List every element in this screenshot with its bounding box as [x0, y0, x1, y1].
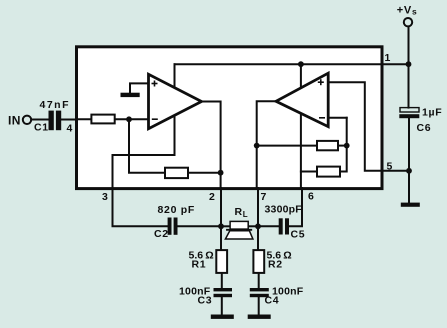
wire C5 to pin 6: [289, 188, 302, 226]
svg-text:R1: R1: [192, 259, 207, 271]
svg-text:C6: C6: [417, 122, 432, 134]
wire node A down: [129, 119, 165, 172]
junction node: feedback/output A: [218, 170, 224, 176]
resistor R2 5.6ohm: [253, 250, 264, 273]
wire internal net pin3 riser: [113, 64, 175, 188]
resistor R1 5.6ohm: [216, 250, 227, 273]
wire +Vs rail lower: [408, 118, 410, 202]
wire pin 3 external: [113, 188, 168, 226]
wire top internal rail to pin 1: [175, 63, 409, 65]
junction node: pin 5 on rail: [406, 168, 412, 174]
wire plus input op-amp B to pin 5: [328, 82, 382, 171]
wire pin7 node to C5: [258, 225, 279, 227]
IC box U1: [77, 47, 383, 189]
junction node: pin 1 on rail: [406, 61, 412, 67]
ground bar C4: [248, 315, 271, 319]
junction node: pin2/C2/speaker: [218, 223, 224, 229]
wire R1 to C3: [221, 273, 223, 288]
svg-text:C4: C4: [265, 295, 280, 307]
wire op-amp A output to pin 2: [202, 102, 221, 189]
plus mark op-amp A: [152, 83, 158, 85]
svg-text:5: 5: [387, 161, 394, 173]
junction node: top rail / pin6 riser: [298, 61, 304, 67]
minus mark op-amp A: [152, 118, 158, 120]
wire C1 to pin 4: [61, 119, 77, 121]
op-amp U1a triangle: [149, 74, 202, 128]
wire minus input op-amp B: [328, 117, 347, 119]
svg-text:47nF: 47nF: [40, 99, 71, 111]
junction node: minus input A: [126, 116, 132, 122]
svg-text:IN: IN: [8, 114, 21, 128]
plus mark op-amp B: [318, 81, 324, 83]
resistor Rin B (internal): [317, 167, 340, 177]
wire +Vs rail upper: [408, 27, 410, 108]
capacitor C3 plates: [214, 288, 233, 291]
wire feedback resistor B left: [257, 145, 317, 147]
svg-text:1µF: 1µF: [422, 107, 442, 119]
capacitor C5 plates: [279, 218, 283, 234]
svg-text:1: 1: [385, 52, 392, 64]
resistor Rfb B (feedback, internal): [317, 141, 338, 150]
svg-text:+Vs: +Vs: [397, 5, 418, 17]
wire speaker right: [248, 225, 258, 227]
terminal +Vs: [404, 18, 412, 26]
capacitor C4 plates: [250, 288, 269, 291]
wire resistor to minus input of op-amp A: [115, 118, 149, 120]
svg-text:C1: C1: [34, 122, 49, 134]
wire IN to C1: [31, 119, 48, 121]
speaker RL: [230, 221, 248, 229]
wire C3 to ground: [221, 297, 223, 314]
minus mark op-amp B: [319, 117, 325, 119]
op-amp U1b triangle: [276, 73, 328, 126]
svg-text:2: 2: [209, 191, 216, 203]
wire pin 2 external down: [220, 188, 222, 250]
internal bias ground bar (hatched) op-amp A: [121, 93, 140, 97]
capacitor C2 plates: [168, 218, 172, 235]
wire pin4 input line inside box: [77, 118, 91, 120]
junction node: output B / feedback: [254, 143, 260, 149]
svg-text:6: 6: [308, 191, 315, 203]
wire speaker left: [221, 225, 230, 227]
wire pin 7 external down: [257, 188, 259, 250]
wire resistor B right to node: [338, 145, 347, 147]
svg-text:820 pF: 820 pF: [158, 204, 195, 216]
svg-text:C5: C5: [291, 229, 306, 241]
wire C4 to ground: [258, 297, 260, 314]
wire R2 to C4: [258, 273, 260, 288]
wire resistor B2 left: [301, 171, 317, 173]
svg-text:R2: R2: [268, 259, 283, 271]
junction node: pin7/C5/speaker: [255, 223, 261, 229]
terminal IN: [23, 116, 31, 124]
ground bar C3: [211, 315, 234, 319]
op-amp polarity marks: [152, 79, 326, 119]
svg-text:C2: C2: [154, 228, 169, 240]
capacitor C1 plates: [49, 111, 54, 131]
wire pin 1 stub handled by top rail; pin 5 stub to rail: [382, 170, 409, 172]
svg-text:3: 3: [102, 191, 109, 203]
resistor Rfb A (feedback, internal): [165, 168, 188, 178]
capacitor C6 plates (top hollow): [400, 108, 419, 112]
wire plus input of op-amp A: [130, 83, 149, 93]
svg-text:3300pF: 3300pF: [265, 204, 303, 216]
ground bar right rail: [401, 203, 420, 207]
wire node down to resistor B2 right: [340, 118, 347, 172]
svg-text:7: 7: [261, 191, 268, 203]
svg-text:4: 4: [67, 123, 74, 135]
wire C2 to pin2 node: [178, 225, 222, 227]
svg-text:C3: C3: [198, 295, 213, 307]
junction node: minus B: [344, 143, 350, 149]
wire feedback resistor to output: [188, 172, 221, 174]
wire pin6 internal riser: [300, 64, 302, 188]
wire op-amp B output to pin 7: [257, 101, 276, 188]
resistor Rin (input, internal): [91, 115, 114, 124]
